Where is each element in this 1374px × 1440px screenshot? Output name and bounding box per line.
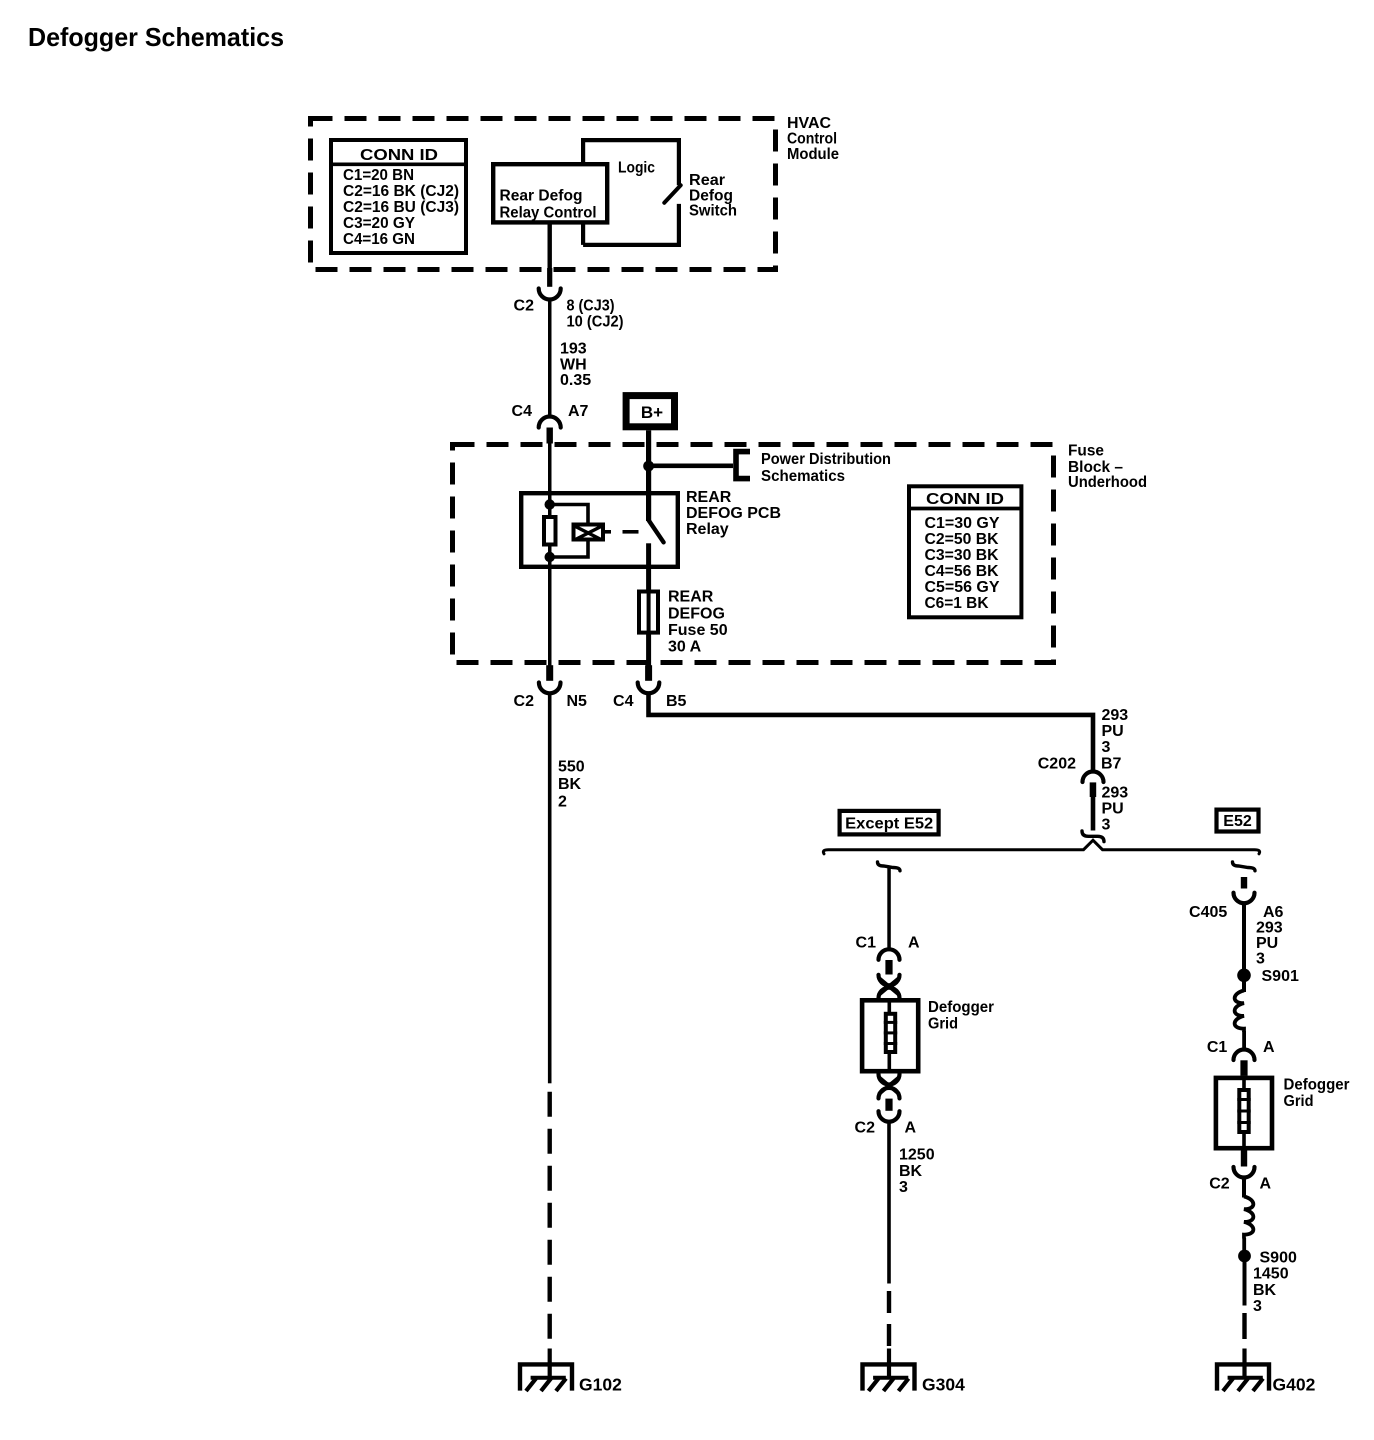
- svg-text:1450: 1450: [1253, 1266, 1289, 1283]
- connector C4 labels, pin A7: [512, 403, 589, 420]
- connector C2 labels, pins 8 (CJ3) / 10 (CJ2): [514, 298, 624, 331]
- connector C405 pin A6: [1189, 877, 1284, 921]
- svg-text:C202: C202: [1038, 756, 1076, 773]
- wire label 293 PU 3 (upper): [1102, 707, 1129, 756]
- REAR DEFOG PCB Relay box: [521, 489, 781, 567]
- ground G304: [863, 1349, 966, 1395]
- wire 293 PU 3 (lower): [1091, 797, 1096, 831]
- wire 550 BK 2: [548, 693, 552, 1348]
- svg-text:3: 3: [1253, 1298, 1262, 1315]
- Rear Defog Relay Control box: [493, 164, 607, 222]
- svg-text:C2: C2: [1209, 1175, 1230, 1192]
- svg-text:0.35: 0.35: [560, 372, 591, 389]
- Rear Defog Switch blade: [664, 185, 680, 203]
- wire relay coil (left): [548, 444, 552, 666]
- svg-text:Defogger: Defogger: [928, 999, 994, 1016]
- svg-text:Switch: Switch: [689, 203, 737, 220]
- wire coil to C1: [1242, 1031, 1246, 1050]
- Defogger Grid box (E52): [1216, 1078, 1272, 1148]
- connector C2 pin A (grid lower, Except E52): [855, 1074, 917, 1137]
- svg-text:Module: Module: [787, 146, 839, 163]
- svg-text:C2: C2: [855, 1120, 876, 1137]
- connector C1 pin A (grid upper, Except E52): [856, 935, 920, 999]
- Fuse Block Underhood label: [1068, 443, 1147, 491]
- svg-text:Defogger Schematics: Defogger Schematics: [28, 22, 284, 52]
- svg-text:1250: 1250: [899, 1147, 935, 1164]
- CONN ID table (HVAC module): [331, 140, 466, 253]
- svg-text:C5=56 GY: C5=56 GY: [925, 579, 1000, 596]
- svg-text:293: 293: [1102, 785, 1129, 802]
- wire below S901: [1242, 968, 1246, 992]
- wire B+ down: [646, 430, 651, 491]
- splice S900: [1238, 1249, 1297, 1266]
- svg-text:B5: B5: [666, 693, 687, 710]
- svg-text:Rear Defog: Rear Defog: [500, 188, 583, 205]
- svg-text:30 A: 30 A: [668, 639, 702, 656]
- svg-text:PU: PU: [1102, 723, 1124, 740]
- wire label 550 BK 2: [558, 759, 585, 811]
- ground G102: [520, 1349, 622, 1395]
- splice hook at brace: [1082, 831, 1104, 842]
- svg-text:Fuse: Fuse: [1068, 443, 1104, 460]
- svg-text:C4: C4: [512, 403, 533, 420]
- svg-text:REAR: REAR: [686, 489, 732, 506]
- branch ornament (E52): [1233, 862, 1256, 871]
- svg-text:C2=50 BK: C2=50 BK: [925, 531, 999, 548]
- Rear Defog Switch label: [689, 172, 737, 220]
- svg-text:B7: B7: [1101, 756, 1122, 773]
- svg-text:REAR: REAR: [668, 589, 714, 606]
- wire 293 PU 3 (E52): [1242, 904, 1246, 969]
- relay resistor: [544, 517, 556, 545]
- title: [28, 22, 284, 52]
- svg-text:BK: BK: [1253, 1282, 1277, 1299]
- svg-text:A: A: [908, 935, 920, 952]
- wire relay control to module edge: [548, 224, 552, 268]
- relay coil parallel branch wire: [550, 505, 588, 558]
- svg-text:C1: C1: [856, 935, 877, 952]
- svg-text:C4=16 GN: C4=16 GN: [343, 231, 415, 248]
- svg-text:2: 2: [558, 793, 567, 810]
- svg-text:A6: A6: [1263, 904, 1284, 921]
- svg-text:Schematics: Schematics: [761, 468, 845, 485]
- HVAC Control Module label: [787, 115, 839, 163]
- svg-text:C405: C405: [1189, 904, 1227, 921]
- wire to power distribution bracket: [648, 464, 733, 469]
- svg-text:Except E52: Except E52: [845, 816, 933, 833]
- svg-text:3: 3: [899, 1179, 908, 1196]
- CONN ID table (fuse block): [909, 486, 1021, 617]
- wire coil to S900: [1242, 1238, 1246, 1250]
- relay coil box with X: [574, 525, 639, 540]
- svg-text:8 (CJ3): 8 (CJ3): [567, 298, 615, 315]
- wire relay to fuse: [646, 543, 651, 589]
- wire B5 to C202: [649, 693, 1094, 771]
- wire label 293 PU 3 (lower): [1102, 785, 1129, 834]
- svg-text:PU: PU: [1256, 935, 1278, 952]
- wire label 1250 BK 3: [899, 1147, 935, 1197]
- svg-text:PU: PU: [1102, 801, 1124, 818]
- wire S900 to ground: [1243, 1262, 1247, 1348]
- relay switch wire top: [646, 491, 651, 521]
- svg-text:E52: E52: [1223, 813, 1252, 830]
- svg-text:DEFOG PCB: DEFOG PCB: [686, 505, 781, 522]
- svg-text:BK: BK: [899, 1163, 923, 1180]
- Defogger Grid label (Except E52): [928, 999, 994, 1032]
- svg-text:C1=20 BN: C1=20 BN: [343, 167, 414, 184]
- connector C2 pin (module exit): [547, 268, 552, 287]
- junction node to power distribution: [643, 461, 654, 472]
- connector C1 pin A (E52): [1207, 1039, 1275, 1076]
- svg-text:Defogger: Defogger: [1284, 1077, 1350, 1094]
- connector C2 pin A (E52 lower): [1209, 1151, 1271, 1193]
- relay switch blade: [649, 521, 664, 543]
- relay junction dot top: [545, 499, 555, 509]
- E52 box: [1217, 810, 1259, 832]
- svg-text:A: A: [905, 1120, 917, 1137]
- svg-text:BK: BK: [558, 776, 582, 793]
- wire label 1450 BK 3: [1253, 1266, 1289, 1316]
- svg-text:C6=1 BK: C6=1 BK: [925, 595, 989, 612]
- svg-text:Relay Control: Relay Control: [500, 205, 597, 222]
- svg-text:Grid: Grid: [928, 1016, 958, 1033]
- HVAC Control Module dashed box: [311, 119, 776, 270]
- svg-text:C3=20 GY: C3=20 GY: [343, 215, 415, 232]
- svg-text:G304: G304: [922, 1374, 965, 1394]
- svg-text:DEFOG: DEFOG: [668, 605, 725, 622]
- svg-text:B+: B+: [641, 403, 663, 422]
- svg-text:C2: C2: [514, 298, 535, 315]
- Defogger Grid box (Except E52): [862, 1000, 918, 1071]
- svg-text:293: 293: [1102, 707, 1129, 724]
- svg-text:550: 550: [558, 759, 585, 776]
- svg-text:A7: A7: [568, 403, 589, 420]
- svg-text:10 (CJ2): 10 (CJ2): [567, 314, 624, 331]
- svg-text:193: 193: [560, 341, 587, 358]
- connector C4 pin bar: [547, 428, 553, 444]
- relay junction dot bottom: [545, 552, 555, 562]
- svg-text:Relay: Relay: [686, 521, 729, 538]
- svg-text:C4: C4: [613, 693, 634, 710]
- svg-text:CONN ID: CONN ID: [360, 147, 438, 164]
- svg-text:Underhood: Underhood: [1068, 474, 1147, 491]
- svg-text:Power Distribution: Power Distribution: [761, 451, 891, 468]
- coil (twisted lead) upper E52: [1235, 991, 1244, 1033]
- connector C4 dome: [539, 417, 561, 428]
- svg-text:3: 3: [1102, 817, 1111, 834]
- wire C2 to coil (E52): [1242, 1178, 1246, 1198]
- brace split to branches: [823, 840, 1259, 854]
- connector C202 dome, pin B7: [1038, 756, 1122, 798]
- connector C2 pin N5 (fuse block exit): [514, 665, 588, 710]
- svg-text:C1=30 GY: C1=30 GY: [925, 515, 1000, 532]
- wire label 193 WH 0.35: [560, 341, 591, 390]
- svg-text:C4=56 BK: C4=56 BK: [925, 563, 999, 580]
- connector C4 pin B5 (fuse block exit): [613, 665, 687, 710]
- svg-text:C2=16 BK (CJ2): C2=16 BK (CJ2): [343, 183, 459, 200]
- B+ power symbol: [626, 396, 674, 427]
- connector C2 cup: [539, 289, 561, 300]
- wire 193 WH 0.35: [548, 299, 552, 416]
- splice S901: [1237, 968, 1299, 985]
- svg-text:G402: G402: [1273, 1374, 1316, 1394]
- Except E52 box: [840, 811, 939, 835]
- svg-text:3: 3: [1102, 739, 1111, 756]
- svg-text:A: A: [1263, 1039, 1275, 1056]
- REAR DEFOG Fuse 50: [639, 589, 728, 656]
- svg-text:CONN ID: CONN ID: [926, 491, 1004, 508]
- svg-text:C2=16 BU (CJ3): C2=16 BU (CJ3): [343, 199, 459, 216]
- svg-text:A: A: [1260, 1175, 1272, 1192]
- ground G402: [1217, 1349, 1316, 1395]
- Fuse Block Underhood dashed box: [453, 445, 1054, 663]
- svg-text:293: 293: [1256, 920, 1283, 937]
- Defogger Grid label (E52): [1284, 1077, 1350, 1110]
- svg-text:WH: WH: [560, 357, 587, 374]
- wire branch Except E52: [887, 868, 891, 949]
- wire label 293 PU 3 (E52): [1256, 920, 1283, 968]
- svg-text:S900: S900: [1260, 1249, 1297, 1266]
- svg-text:C2: C2: [514, 693, 535, 710]
- svg-text:C3=30 BK: C3=30 BK: [925, 547, 999, 564]
- svg-text:Logic: Logic: [618, 160, 655, 177]
- svg-text:3: 3: [1256, 951, 1265, 968]
- svg-text:Fuse 50: Fuse 50: [668, 622, 728, 639]
- Logic box: [583, 140, 679, 245]
- wire 1250 BK 3: [887, 1122, 891, 1349]
- svg-text:Grid: Grid: [1284, 1093, 1314, 1110]
- wire fuse to B5 exit: [646, 634, 651, 667]
- branch ornament (Except E52): [878, 862, 901, 871]
- coil (twisted lead) lower E52: [1244, 1197, 1253, 1239]
- svg-text:G102: G102: [579, 1374, 622, 1394]
- svg-text:C1: C1: [1207, 1039, 1228, 1056]
- svg-text:N5: N5: [567, 693, 588, 710]
- Power Distribution Schematics bracket: [736, 451, 891, 485]
- svg-text:S901: S901: [1262, 968, 1299, 985]
